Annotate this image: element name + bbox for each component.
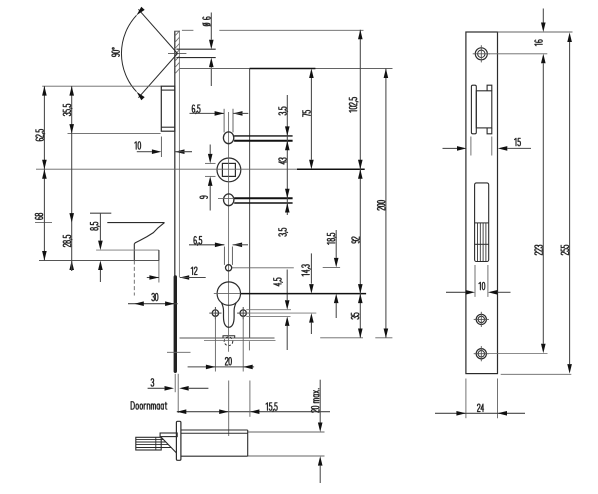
dimension O6 (pin diameter) (210, 13, 212, 40)
euro profile cylinder hole (217, 282, 240, 305)
dimension 9 (square) (209, 145, 211, 154)
dimension 16 / 223 (542, 9, 544, 23)
middle screw hole (476, 314, 486, 324)
dimension 8.5 (90, 212, 111, 214)
dimension 24 (435, 412, 525, 414)
upper faceplate screw hole (223, 132, 233, 144)
horizontal spindle centreline (36, 168, 297, 170)
dimension 15 (443, 147, 458, 149)
dimension 30 (deadbolt throw) (128, 303, 178, 305)
bottom view key (cylinder key) (136, 437, 161, 450)
dimension 6.5 upper (190, 112, 225, 114)
tick for 35 at case bottom (320, 337, 363, 339)
dimension 10 (446, 291, 466, 293)
dimension 200 (385, 69, 387, 339)
lock faceplate (front plate, section) (174, 31, 176, 277)
dimension 20 max (319, 380, 321, 424)
axis extension to bottom view (228, 381, 230, 437)
dimension Doornmaat / 15.5 (177, 411, 330, 413)
90 degree swing arc (138, 54, 177, 98)
dimension column 35.5 / 28.5 (71, 86, 73, 271)
cylinder screw extension lines for 20 (214, 317, 216, 372)
bottom view faceplate section (176, 421, 181, 460)
dimension 12 (deadbolt protrusion) (147, 277, 159, 279)
deadbolt pocket extension lines (474, 265, 476, 297)
dimension 20 (cylinder screws) (188, 366, 255, 368)
cylinder screw reference lines (246, 309, 291, 311)
top screw hole (475, 48, 487, 60)
right cylinder screw (240, 310, 246, 316)
vertical axis centreline (228, 112, 230, 352)
bottom fixing hole (hidden) (224, 337, 233, 346)
cylinder fixing screw hole (223, 247, 225, 265)
latch bolt (161, 86, 175, 131)
dimension column 3.5 / 43 / 3.5 / 4.5 (286, 95, 288, 215)
bottom view cylinder cam (160, 433, 177, 437)
dimension 4.5 (286, 270, 288, 301)
case bottom right extension (248, 341, 250, 350)
dimension 255 (569, 42, 571, 364)
face plate outline (466, 32, 498, 374)
bottom view lock case section (181, 429, 248, 431)
dimension 3 (faceplate thickness) (174, 374, 176, 392)
faceplate tick mark (167, 351, 191, 353)
left cylinder screw (212, 310, 218, 316)
latch pocket (471, 85, 476, 134)
plate extension lines (498, 31, 573, 33)
lower faceplate screw hole (224, 194, 234, 206)
deadbolt (107, 222, 164, 224)
dimension 14.3 (310, 253, 312, 283)
cylinder horizontal centreline (214, 293, 241, 295)
cylinder centreline thick reference (241, 293, 367, 295)
lock case outline (249, 69, 251, 339)
bottom view wedge diagonal (161, 437, 176, 453)
latch pocket extension lines (470, 137, 472, 156)
case bottom tab (223, 336, 235, 338)
deadbolt pocket (475, 183, 489, 262)
case edge extension for 15.5 (249, 381, 251, 417)
dimension 10 (latch protrusion) (160, 137, 162, 158)
dimension 18.5 (335, 230, 337, 258)
top extension line (latch tip) (182, 29, 194, 31)
latch pin (176, 48, 215, 50)
dimension column 62.5 / 68 (43, 86, 45, 260)
faceplate lower thick section (174, 277, 177, 371)
dimension 6.5 lower (189, 244, 224, 246)
spindle follower (square nut) (217, 158, 241, 182)
extension line 35.5 bottom (68, 133, 161, 135)
faceplate hatching (175, 31, 180, 74)
dimension 75 (310, 78, 312, 160)
latch top extension line (42, 85, 161, 87)
lower screw hole (476, 349, 486, 359)
dimension column 102.5 / 92 / 35 (359, 30, 361, 338)
